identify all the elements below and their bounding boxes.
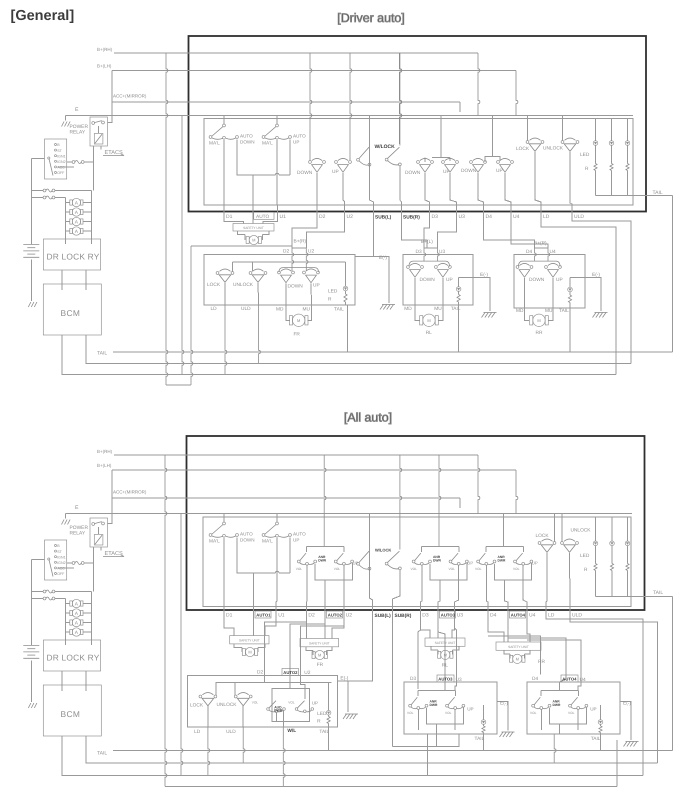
wire ULD drop: [570, 152, 572, 205]
led LED RR bottom: [598, 705, 603, 734]
switch UP U2: [332, 158, 351, 175]
svg-text:ULD: ULD: [574, 214, 584, 220]
wire feed drop pair2: [425, 115, 450, 163]
svg-text:LOCK: LOCK: [190, 703, 204, 709]
wire TAIL RR bottom to bus1: [600, 734, 602, 752]
safety unit RL allauto: [425, 638, 465, 646]
fuse F2: [64, 208, 92, 216]
wire B+LH end drop: [516, 71, 518, 116]
block Driver auto: [189, 36, 647, 212]
label D2 U2 assembly FR: [283, 249, 314, 255]
svg-text:E(-): E(-): [379, 255, 387, 261]
wire U3 into box RL: [437, 248, 440, 262]
wire MD RR: [524, 278, 526, 308]
svg-text:U4: U4: [529, 613, 536, 619]
svg-text:AUTO3: AUTO3: [438, 677, 453, 682]
wire AUTO3 branch to assembly RL: [438, 632, 445, 691]
switch W/LOCK allauto: [357, 455, 402, 603]
wire U2 to safety unit FR allauto: [332, 618, 345, 639]
wire MD RL: [414, 278, 416, 305]
svg-text:MA'L: MA'L: [262, 141, 273, 147]
svg-text:ACC: ACC: [57, 166, 65, 170]
svg-text:D4: D4: [486, 214, 493, 220]
wire E(-) node FR: [355, 255, 389, 303]
wire bail assembly RR: [519, 261, 561, 266]
wire RR bottom to bus2: [553, 725, 559, 765]
contact row 1: [30, 189, 94, 198]
node B+(L) RL: [421, 239, 438, 248]
svg-text:M: M: [252, 238, 255, 243]
switch UNLOCK FR: [233, 269, 267, 288]
label AUTO DOWN: [240, 134, 255, 145]
wire RL bottom auto U loop: [393, 725, 460, 747]
svg-text:M: M: [318, 653, 321, 658]
svg-text:E: E: [75, 107, 79, 113]
wire B+(RH) rail allauto: [164, 454, 478, 456]
label D3 U3 assembly RL: [416, 249, 446, 255]
svg-text:ULD: ULD: [572, 613, 582, 619]
svg-text:TAIL: TAIL: [97, 351, 107, 357]
svg-text:VOL: VOL: [334, 567, 341, 571]
ground E(-) FR: [380, 305, 395, 310]
motor driver window allauto: [234, 644, 265, 657]
battery: [23, 646, 39, 659]
svg-text:ACC+(MIRROR): ACC+(MIRROR): [113, 490, 147, 495]
wire ULD FR to bus2: [258, 305, 261, 365]
wire D3 branch to assembly RL: [418, 630, 421, 689]
wire bail assembly RL: [409, 261, 450, 266]
label LED R main: [580, 152, 590, 172]
svg-text:U2: U2: [347, 214, 354, 220]
wire relay to ignition output: [93, 146, 95, 191]
relay box DR LOCK RY: [43, 239, 100, 284]
wire U3 into RL bottom: [455, 675, 456, 691]
wire module FR D2 exit: [306, 566, 309, 604]
svg-text:D2: D2: [308, 613, 315, 619]
wire MA'L2 to U1: [276, 140, 278, 205]
svg-text:LD: LD: [548, 613, 555, 619]
svg-text:SAFETY UNIT: SAFETY UNIT: [309, 641, 330, 645]
svg-text:E(-): E(-): [592, 272, 600, 278]
svg-text:VOL: VOL: [475, 567, 482, 571]
svg-text:UP: UP: [353, 561, 359, 566]
switch UNLOCK allauto: [561, 513, 592, 554]
svg-text:AUTO2: AUTO2: [328, 613, 343, 618]
switch DOWN D4: [461, 158, 486, 174]
battery: [23, 245, 39, 258]
wire D4 branch to assembly RR: [487, 635, 541, 675]
wire feed drop pair1 up: [350, 53, 352, 160]
svg-text:RR: RR: [538, 659, 545, 665]
wire D4 into box RR: [534, 248, 537, 262]
wire MA'L2 to U1 allauto: [276, 538, 277, 603]
wire W/LOCK v2 to SUB(R): [400, 53, 402, 205]
wire D1 to safety unit allauto: [224, 618, 234, 636]
title General: [11, 8, 75, 24]
wire U4 into RR bottom: [578, 675, 581, 691]
wire LD FR to bus3: [224, 305, 227, 376]
svg-text:TAIL: TAIL: [334, 307, 344, 313]
svg-text:UP: UP: [443, 169, 450, 175]
terminal labels assembly RR: [516, 308, 569, 314]
svg-text:MA'L: MA'L: [262, 539, 273, 545]
svg-text:M: M: [248, 650, 251, 655]
wire E(-) node RL: [459, 272, 490, 311]
svg-text:UP: UP: [467, 561, 473, 566]
motor RR allauto: [504, 650, 545, 665]
panel main switch outline: [204, 119, 633, 206]
svg-text:SAFETY UNIT: SAFETY UNIT: [435, 641, 456, 645]
title Driver auto: [337, 11, 404, 25]
switch UP FR: [303, 269, 320, 289]
svg-text:LED: LED: [317, 711, 327, 717]
wire B+(LH) rail allauto: [187, 469, 517, 471]
svg-text:E(-): E(-): [480, 272, 488, 278]
fuse F4: [64, 628, 92, 636]
svg-text:LED: LED: [580, 553, 590, 559]
svg-text:TAIL: TAIL: [591, 736, 601, 742]
wire U3 to safety unit RL allauto: [452, 618, 456, 639]
motor FR: [286, 305, 312, 338]
svg-text:LOCK: LOCK: [207, 282, 221, 288]
svg-text:U2: U2: [308, 249, 314, 255]
wire E riser allauto: [180, 513, 183, 777]
wire ULD FR: [257, 283, 260, 305]
wire MU FR: [310, 284, 313, 306]
svg-text:D1: D1: [226, 214, 233, 220]
svg-text:LD: LD: [194, 729, 201, 735]
svg-text:ACC: ACC: [57, 567, 65, 571]
svg-text:SUB(L): SUB(L): [375, 613, 392, 619]
wire U2 branch to pod: [300, 626, 344, 675]
svg-text:ST: ST: [57, 550, 62, 554]
svg-text:BCM: BCM: [61, 709, 81, 719]
switch DOWN D2: [297, 158, 325, 176]
relay POWER RELAY: [70, 102, 113, 146]
wire U2 into box: [306, 248, 308, 271]
wire D4 to safety unit RR allauto: [487, 618, 504, 643]
svg-text:RR: RR: [536, 330, 543, 336]
wire D2 pod into box: [264, 675, 266, 683]
wire E rail allauto: [187, 513, 633, 515]
wire AUTO1 to safety unit allauto: [253, 618, 255, 636]
terminal ticks allauto box: [223, 603, 571, 618]
wire ULD to bus2 riser: [572, 220, 631, 364]
svg-text:DOWN: DOWN: [405, 170, 421, 176]
wire B+(RH) rail: [189, 52, 479, 54]
wire AUTO4 branch to assembly RR: [507, 637, 566, 691]
wire AUTO4 to safety unit RR allauto: [507, 618, 509, 643]
svg-text:DWR: DWR: [430, 703, 438, 707]
wire AUTO to safety unit: [252, 220, 254, 224]
wire RL bottom to bus3: [427, 734, 429, 777]
fuse rails: [65, 198, 91, 239]
svg-text:VOL: VOL: [445, 711, 452, 715]
svg-text:DOWN: DOWN: [529, 277, 545, 283]
label TAIL RL bottom: [475, 736, 485, 742]
svg-text:TAIL: TAIL: [653, 590, 663, 596]
switch DOWN RL: [407, 263, 436, 283]
svg-text:AUTO: AUTO: [256, 214, 270, 220]
label D4 U4 assembly RR: [526, 249, 556, 255]
wire TAIL riser right allauto: [672, 596, 674, 750]
led LED RL: [456, 277, 461, 305]
svg-text:AUTO: AUTO: [240, 134, 253, 139]
wire TAIL RL bottom to bus1: [483, 734, 485, 752]
svg-text:R: R: [328, 297, 332, 303]
led LED3 allauto: [625, 517, 630, 596]
chassis ground E: [62, 122, 71, 127]
svg-text:VOL: VOL: [296, 567, 303, 571]
svg-text:DWR: DWR: [318, 559, 326, 563]
node B+(R) FR: [191, 239, 307, 249]
svg-text:MD: MD: [276, 307, 284, 313]
terminal labels assembly RL: [404, 306, 461, 312]
panel main switch outline allauto: [203, 517, 631, 607]
control unit BCM: [43, 685, 101, 736]
led LED1 main: [593, 119, 598, 196]
svg-text:UNLOCK: UNLOCK: [543, 146, 564, 152]
svg-text:D4: D4: [532, 676, 538, 682]
svg-text:ULD: ULD: [226, 729, 236, 735]
wire B+(RH) feed: [97, 449, 189, 455]
wire E feed: [66, 505, 189, 519]
svg-text:U4: U4: [550, 249, 556, 255]
wire bail rockers FR: [279, 268, 319, 273]
svg-text:D2: D2: [283, 249, 289, 255]
switch module RR allauto: [475, 545, 538, 586]
svg-text:B+(LH): B+(LH): [97, 463, 112, 468]
wire D4 net to assembly RR: [484, 220, 535, 249]
svg-text:SAFETY UNIT: SAFETY UNIT: [508, 645, 529, 649]
svg-text:DOWN: DOWN: [288, 284, 304, 290]
svg-text:DOWN: DOWN: [240, 538, 255, 543]
svg-text:U2: U2: [346, 613, 353, 619]
wire U2 net to assembly FR: [306, 220, 344, 249]
svg-text:D3: D3: [422, 613, 429, 619]
switch LOCK FR: [207, 269, 234, 288]
switch module RL bottom: [407, 690, 474, 731]
wire ULD pod to bus2: [242, 706, 245, 764]
switch LOCK main: [516, 115, 544, 153]
terminal labels pod: [194, 729, 329, 735]
svg-text:DWR: DWR: [274, 709, 283, 713]
contact row 2: [30, 597, 65, 603]
wire assembly FR internal rail: [233, 261, 346, 272]
svg-text:IGN1: IGN1: [57, 555, 65, 559]
wire module FR AUTO2 exit: [324, 580, 326, 603]
svg-text:U3: U3: [439, 249, 445, 255]
wire module RL D3 exit: [421, 566, 422, 604]
bus 2 driver: [86, 335, 631, 364]
svg-text:R: R: [317, 719, 321, 725]
box pod FR allauto: [188, 675, 338, 727]
wire LD pod to bus3: [207, 706, 210, 777]
svg-text:SAFETY UNIT: SAFETY UNIT: [239, 639, 260, 643]
ground E(-) RR: [593, 313, 608, 318]
svg-text:MD: MD: [516, 308, 524, 314]
wire module RL AUTO3 exit: [438, 580, 440, 603]
svg-text:RL: RL: [426, 330, 432, 336]
wire SUB(R) down to RL bottom: [392, 618, 394, 747]
svg-text:FR: FR: [294, 332, 301, 338]
label AUTO UP: [293, 134, 306, 145]
svg-text:UP: UP: [312, 701, 318, 706]
bus 3 driver: [62, 335, 616, 375]
wire battery rail: [30, 560, 32, 702]
svg-text:DOWN: DOWN: [297, 170, 313, 176]
switch MA'L 2 allauto: [262, 513, 291, 545]
wire U4 net to assembly RR: [511, 220, 548, 249]
led LED2 allauto: [610, 517, 615, 596]
svg-text:[General]: [General]: [11, 8, 75, 24]
svg-text:ULD: ULD: [241, 306, 251, 312]
svg-text:AUTO: AUTO: [240, 532, 253, 537]
safety unit FR allauto: [300, 639, 339, 647]
fuse F4: [64, 227, 92, 235]
svg-text:SUB(R): SUB(R): [403, 215, 420, 221]
svg-text:UNLOCK: UNLOCK: [233, 282, 254, 288]
svg-text:U1: U1: [278, 613, 285, 619]
wire B+(RH) feed: [97, 47, 189, 53]
svg-text:U4: U4: [513, 214, 520, 220]
svg-text:POWER: POWER: [70, 525, 89, 531]
svg-text:B+(LH): B+(LH): [97, 64, 112, 69]
switch DOWN FR: [278, 269, 304, 290]
switch LOCK pod: [190, 693, 217, 709]
wire AUTO rail allauto: [237, 538, 290, 604]
wire D3 to safety unit RL allauto: [420, 618, 431, 639]
motor RL allauto: [431, 646, 459, 668]
svg-text:RL: RL: [442, 663, 448, 669]
node B+(R) RR: [534, 241, 548, 249]
svg-text:SUB(R): SUB(R): [395, 613, 412, 619]
wire U4 drop: [505, 173, 511, 205]
wire B+(LH) feed: [97, 463, 189, 498]
svg-text:VOL: VOL: [513, 567, 520, 571]
svg-text:VOL: VOL: [288, 700, 295, 704]
svg-text:VOL: VOL: [568, 711, 575, 715]
svg-text:R: R: [584, 567, 588, 573]
svg-text:UNLOCK: UNLOCK: [571, 528, 592, 534]
wire TAIL FR to bus: [347, 305, 349, 353]
svg-text:D3: D3: [410, 676, 416, 682]
switch MA'L 2: [262, 115, 291, 147]
ground E(-) RL: [482, 313, 497, 318]
bus TAIL driver: [97, 351, 673, 357]
wire U3 net to assembly RL: [438, 220, 457, 249]
svg-text:W/L: W/L: [287, 728, 296, 734]
wire relay to ignition output: [93, 547, 95, 592]
wire module FR feed: [323, 455, 326, 546]
label AUTO UP allauto: [293, 532, 306, 543]
terminal labels driver box: [226, 212, 584, 220]
box assembly RL bottom: [404, 682, 497, 734]
svg-text:D4: D4: [526, 249, 532, 255]
label D4 AUTO4 U4 assembly RR bottom: [532, 675, 586, 683]
svg-text:UP: UP: [293, 140, 299, 145]
led LED pod: [317, 683, 331, 728]
switch UP RR: [545, 263, 563, 283]
svg-text:VOL: VOL: [252, 700, 259, 704]
svg-text:IGN1: IGN1: [57, 154, 65, 158]
contact row 1: [30, 590, 94, 599]
wire B+(LH) rail: [189, 70, 517, 72]
wire LD drop allauto: [546, 553, 547, 603]
switch MA'L 1 allauto: [209, 513, 238, 545]
wire AUTO3 to safety unit RL allauto: [437, 618, 439, 639]
wire AUTO2 branch to pod: [290, 624, 325, 675]
svg-text:B+(RH): B+(RH): [97, 47, 113, 52]
wire MU RR: [552, 278, 554, 308]
svg-text:MA'L: MA'L: [209, 539, 220, 545]
svg-text:AUTO4: AUTO4: [562, 677, 577, 682]
wire battery rail: [30, 159, 32, 301]
svg-text:AUTO2: AUTO2: [283, 670, 298, 675]
fuse F2: [64, 609, 92, 617]
wire pair3 bail: [485, 157, 500, 163]
svg-text:UP: UP: [446, 277, 453, 283]
led LED1 allauto: [593, 517, 598, 596]
wire module RR U4 exit: [523, 566, 527, 604]
relay POWER RELAY: [70, 498, 113, 547]
svg-text:IGN2: IGN2: [57, 561, 65, 565]
label D3 AUTO3 U3 assembly RL bottom: [410, 675, 462, 683]
terminal labels assembly FR: [211, 306, 345, 313]
wire SUB(L) to pod ground: [347, 618, 373, 683]
wire LED rail to TAIL allauto: [596, 590, 673, 596]
motor driver window: [238, 231, 270, 245]
wire TAIL RL to bus: [458, 304, 460, 353]
wire LD FR: [224, 283, 226, 305]
label TAIL RR bottom: [591, 736, 601, 742]
svg-text:LED: LED: [580, 152, 590, 158]
svg-text:R: R: [585, 166, 589, 172]
svg-text:DWR: DWR: [498, 559, 506, 563]
wire U2 drop: [343, 173, 345, 205]
wire W/L pod to bus4: [282, 721, 285, 787]
svg-text:MA'L: MA'L: [209, 141, 220, 147]
wire feed drop pair1 down: [310, 53, 312, 161]
bus TAIL allauto: [97, 751, 673, 757]
wire E(-) node pod: [338, 676, 349, 713]
wire LD drop: [535, 152, 541, 205]
wire U1 to safety unit: [263, 220, 277, 224]
label ETACS: [101, 146, 124, 156]
svg-text:AUTO4: AUTO4: [511, 613, 526, 618]
svg-text:UP: UP: [590, 706, 596, 711]
switch UNLOCK pod: [217, 693, 253, 708]
switch module FR allauto: [296, 545, 359, 586]
label AUTO DOWN allauto: [240, 532, 255, 543]
svg-text:VOL: VOL: [449, 567, 456, 571]
safety unit driver allauto: [230, 636, 269, 644]
label LED R allauto: [580, 553, 590, 573]
svg-text:MU: MU: [545, 308, 553, 314]
svg-text:U1: U1: [280, 214, 287, 220]
wire module RR feed: [478, 455, 518, 546]
ignition switch: [31, 139, 94, 179]
svg-text:AUTO1: AUTO1: [256, 613, 271, 618]
wire E(-) node RR bottom: [620, 701, 631, 741]
svg-text:ACC+(MIRROR): ACC+(MIRROR): [113, 94, 147, 99]
svg-text:D3: D3: [432, 214, 439, 220]
motor FR allauto: [306, 647, 332, 668]
bus 2 allauto: [86, 736, 658, 763]
switch DOWN D3: [405, 158, 433, 176]
motor RL: [415, 305, 443, 336]
wire D1 to safety unit: [224, 220, 244, 224]
